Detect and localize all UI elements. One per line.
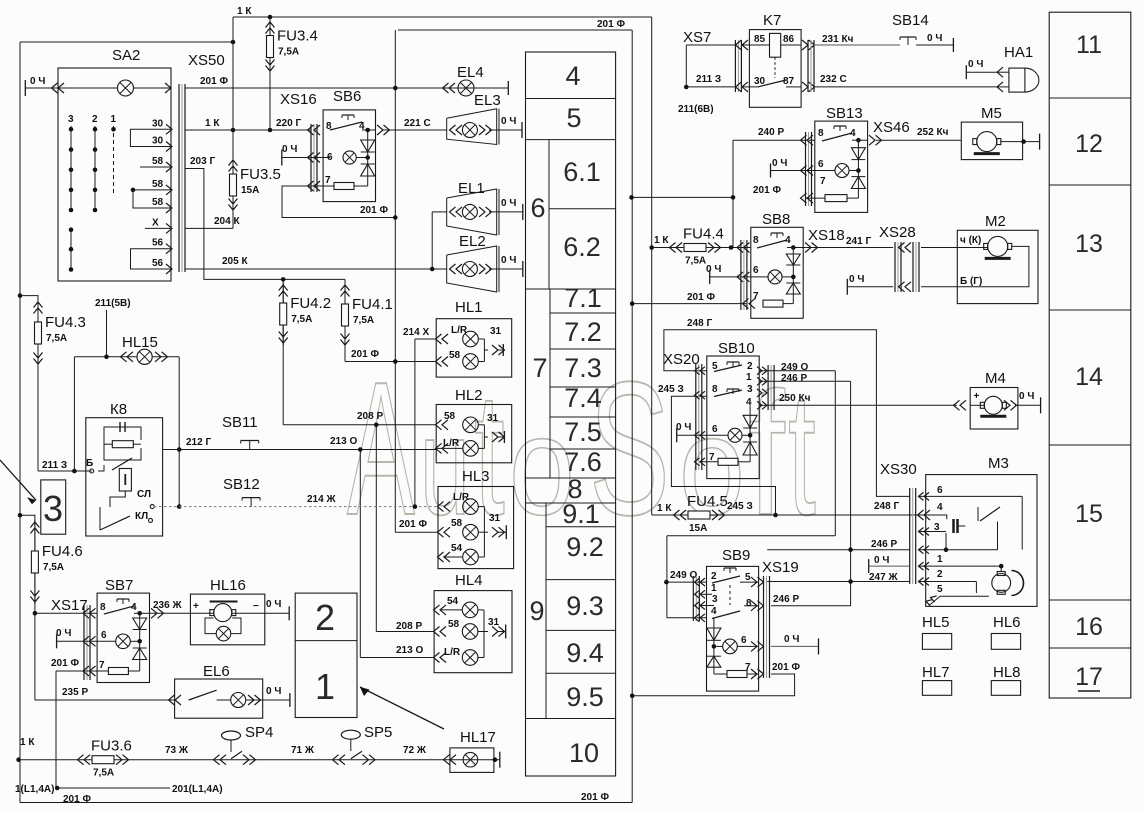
svg-text:HL6: HL6 xyxy=(993,614,1021,631)
svg-text:HL5: HL5 xyxy=(922,614,950,631)
svg-text:FU3.5: FU3.5 xyxy=(240,166,281,183)
svg-text:1(L1,4А): 1(L1,4А) xyxy=(15,784,54,795)
svg-text:0 Ч: 0 Ч xyxy=(501,116,516,127)
svg-text:2: 2 xyxy=(92,114,98,125)
svg-text:0 Ч: 0 Ч xyxy=(927,33,942,44)
svg-text:НА1: НА1 xyxy=(1004,44,1033,61)
svg-text:L/R: L/R xyxy=(453,492,470,503)
svg-text:XS50: XS50 xyxy=(188,52,225,69)
svg-text:5: 5 xyxy=(566,103,581,133)
svg-text:0 Ч: 0 Ч xyxy=(849,274,864,285)
svg-text:HL2: HL2 xyxy=(455,387,483,404)
svg-text:XS46: XS46 xyxy=(873,119,910,136)
svg-text:2: 2 xyxy=(711,571,717,582)
svg-text:SA2: SA2 xyxy=(112,47,140,64)
svg-text:6: 6 xyxy=(327,152,333,163)
svg-text:+: + xyxy=(193,601,199,612)
svg-text:31: 31 xyxy=(490,326,502,337)
svg-text:8: 8 xyxy=(326,121,332,132)
svg-text:M3: M3 xyxy=(988,455,1009,472)
svg-text:246 Р: 246 Р xyxy=(773,594,799,605)
svg-text:XS16: XS16 xyxy=(280,91,317,108)
svg-text:М2: М2 xyxy=(985,213,1006,230)
svg-text:0 Ч: 0 Ч xyxy=(772,158,787,169)
svg-text:87: 87 xyxy=(783,76,795,87)
svg-text:71 Ж: 71 Ж xyxy=(291,745,315,756)
svg-text:248 Г: 248 Г xyxy=(874,501,899,512)
svg-text:HL7: HL7 xyxy=(922,664,950,681)
svg-text:SB11: SB11 xyxy=(222,414,258,431)
svg-text:8: 8 xyxy=(100,602,106,613)
svg-text:7: 7 xyxy=(325,175,331,186)
svg-text:FU4.2: FU4.2 xyxy=(290,295,331,312)
svg-text:201 Ф: 201 Ф xyxy=(687,292,715,303)
svg-text:8: 8 xyxy=(753,235,759,246)
svg-text:7,5А: 7,5А xyxy=(43,562,64,573)
svg-text:6: 6 xyxy=(712,424,718,435)
svg-text:9.1: 9.1 xyxy=(562,499,600,529)
svg-text:15А: 15А xyxy=(241,185,259,196)
svg-text:HL8: HL8 xyxy=(993,664,1021,681)
svg-text:1 К: 1 К xyxy=(237,6,252,17)
svg-text:85: 85 xyxy=(754,34,766,45)
svg-text:Х: Х xyxy=(152,217,159,228)
svg-text:0 Ч: 0 Ч xyxy=(501,255,516,266)
svg-text:7,5А: 7,5А xyxy=(353,315,374,326)
svg-text:FU4.4: FU4.4 xyxy=(683,226,724,243)
svg-text:0 Ч: 0 Ч xyxy=(706,264,721,275)
svg-text:213 О: 213 О xyxy=(396,645,423,656)
svg-text:7: 7 xyxy=(532,353,547,383)
svg-text:L/R: L/R xyxy=(444,647,461,658)
svg-text:SB14: SB14 xyxy=(892,12,929,29)
svg-text:12: 12 xyxy=(1075,130,1103,158)
svg-text:Б (Г): Б (Г) xyxy=(960,276,982,287)
svg-text:7.3: 7.3 xyxy=(564,353,602,383)
svg-text:7.1: 7.1 xyxy=(564,283,602,313)
svg-text:HL16: HL16 xyxy=(210,577,246,594)
svg-text:XS20: XS20 xyxy=(663,351,700,368)
svg-text:201 Ф: 201 Ф xyxy=(351,349,379,360)
svg-text:246 Р: 246 Р xyxy=(871,539,897,550)
svg-text:4: 4 xyxy=(746,397,752,408)
svg-text:0 Ч: 0 Ч xyxy=(1019,391,1034,402)
svg-text:214 Х: 214 Х xyxy=(403,327,429,338)
svg-text:240 Р: 240 Р xyxy=(758,127,784,138)
svg-text:HL15: HL15 xyxy=(122,334,158,351)
svg-text:58: 58 xyxy=(152,179,164,190)
svg-text:7,5А: 7,5А xyxy=(93,768,114,779)
svg-text:7: 7 xyxy=(753,291,759,302)
svg-text:15А: 15А xyxy=(689,523,707,534)
svg-text:1: 1 xyxy=(315,666,335,707)
svg-text:6: 6 xyxy=(101,630,107,641)
svg-text:221 С: 221 С xyxy=(404,118,431,129)
svg-text:0 Ч: 0 Ч xyxy=(784,634,799,645)
svg-text:t: t xyxy=(788,357,816,552)
svg-text:FU4.6: FU4.6 xyxy=(42,543,83,560)
svg-text:XS19: XS19 xyxy=(762,559,799,576)
svg-text:1: 1 xyxy=(711,583,717,594)
svg-text:14: 14 xyxy=(1075,363,1103,391)
svg-text:1: 1 xyxy=(111,114,117,125)
svg-text:HL3: HL3 xyxy=(462,468,490,485)
svg-text:SB8: SB8 xyxy=(762,211,790,228)
svg-text:SB13: SB13 xyxy=(826,105,863,122)
svg-text:54: 54 xyxy=(447,596,459,607)
svg-text:6: 6 xyxy=(741,635,747,646)
svg-text:0 Ч: 0 Ч xyxy=(282,144,297,155)
svg-text:6: 6 xyxy=(818,159,824,170)
svg-text:7,5А: 7,5А xyxy=(685,256,706,267)
svg-text:205 К: 205 К xyxy=(222,256,248,267)
svg-text:4: 4 xyxy=(937,502,943,513)
svg-text:SB12: SB12 xyxy=(223,476,260,493)
svg-text:249 О: 249 О xyxy=(781,362,808,373)
svg-text:252 Кч: 252 Кч xyxy=(917,127,949,138)
svg-text:HL1: HL1 xyxy=(455,299,483,316)
svg-text:EL6: EL6 xyxy=(203,663,230,680)
svg-text:5: 5 xyxy=(937,584,943,595)
svg-text:0 Ч: 0 Ч xyxy=(874,555,889,566)
svg-text:56: 56 xyxy=(152,238,164,249)
svg-text:FU4.5: FU4.5 xyxy=(687,493,728,510)
svg-text:FU3.6: FU3.6 xyxy=(91,738,132,755)
svg-text:HL4: HL4 xyxy=(455,572,483,589)
svg-text:13: 13 xyxy=(1075,230,1103,258)
svg-text:HL17: HL17 xyxy=(460,729,496,746)
svg-text:XS30: XS30 xyxy=(880,461,917,478)
svg-text:58: 58 xyxy=(449,350,461,361)
svg-text:7: 7 xyxy=(99,660,105,671)
svg-text:31: 31 xyxy=(489,513,501,524)
svg-text:211 З: 211 З xyxy=(696,74,721,85)
svg-text:31: 31 xyxy=(487,413,499,424)
svg-text:250 Кч: 250 Кч xyxy=(779,393,811,404)
svg-text:6.2: 6.2 xyxy=(563,232,601,262)
svg-text:−: − xyxy=(253,601,259,612)
svg-text:3: 3 xyxy=(747,384,753,395)
svg-text:9.4: 9.4 xyxy=(566,638,604,668)
svg-text:К8: К8 xyxy=(110,401,127,418)
svg-text:7,5А: 7,5А xyxy=(46,333,67,344)
svg-text:7: 7 xyxy=(745,662,751,673)
svg-text:SB9: SB9 xyxy=(722,547,750,564)
svg-text:201 Ф: 201 Ф xyxy=(63,794,91,805)
svg-text:2: 2 xyxy=(315,597,335,638)
svg-text:1: 1 xyxy=(746,372,752,383)
svg-text:9.3: 9.3 xyxy=(566,591,604,621)
svg-text:K7: K7 xyxy=(763,12,781,29)
svg-text:9.5: 9.5 xyxy=(566,682,604,712)
svg-text:201 Ф: 201 Ф xyxy=(772,662,800,673)
svg-text:1 К: 1 К xyxy=(657,503,672,514)
svg-text:6: 6 xyxy=(753,265,759,276)
svg-text:SP5: SP5 xyxy=(364,724,392,741)
svg-text:0 Ч: 0 Ч xyxy=(56,628,71,639)
svg-text:7.6: 7.6 xyxy=(564,447,602,477)
svg-text:31: 31 xyxy=(488,617,500,628)
svg-text:2: 2 xyxy=(747,361,753,372)
svg-text:3: 3 xyxy=(68,114,74,125)
svg-text:SB10: SB10 xyxy=(718,340,755,357)
svg-text:11: 11 xyxy=(1076,31,1102,59)
svg-text:220 Г: 220 Г xyxy=(276,118,301,129)
svg-text:L/R: L/R xyxy=(443,438,460,449)
svg-text:201(L1,4А): 201(L1,4А) xyxy=(172,784,223,795)
svg-text:M4: M4 xyxy=(985,370,1006,387)
svg-text:o: o xyxy=(679,389,745,544)
svg-text:16: 16 xyxy=(1075,613,1103,641)
svg-text:73 Ж: 73 Ж xyxy=(165,745,189,756)
svg-text:M5: M5 xyxy=(981,105,1002,122)
svg-text:EL4: EL4 xyxy=(457,64,484,81)
svg-text:58: 58 xyxy=(451,518,463,529)
svg-text:7: 7 xyxy=(820,176,826,187)
svg-text:СЛ: СЛ xyxy=(137,489,151,500)
svg-text:208 Р: 208 Р xyxy=(396,621,422,632)
svg-text:4: 4 xyxy=(131,602,137,613)
svg-text:201 Ф: 201 Ф xyxy=(753,185,781,196)
svg-text:6: 6 xyxy=(937,485,943,496)
svg-text:4: 4 xyxy=(711,606,717,617)
svg-text:203 Г: 203 Г xyxy=(190,156,215,167)
svg-text:241 Г: 241 Г xyxy=(846,236,871,247)
svg-text:7,5А: 7,5А xyxy=(278,47,299,58)
svg-text:10: 10 xyxy=(569,738,599,768)
svg-text:0 Ч: 0 Ч xyxy=(30,76,45,87)
svg-text:201 Ф: 201 Ф xyxy=(51,658,79,669)
svg-text:7.2: 7.2 xyxy=(564,317,602,347)
svg-text:6: 6 xyxy=(530,193,545,223)
svg-text:f: f xyxy=(748,356,785,551)
svg-text:246 Р: 246 Р xyxy=(781,373,807,384)
svg-text:ч (К): ч (К) xyxy=(960,235,981,246)
svg-text:201 Ф: 201 Ф xyxy=(597,19,625,30)
svg-text:1 К: 1 К xyxy=(205,118,220,129)
svg-text:0 Ч: 0 Ч xyxy=(501,198,516,209)
svg-text:204 К: 204 К xyxy=(214,216,240,227)
svg-text:XS17: XS17 xyxy=(51,597,88,614)
svg-text:7.4: 7.4 xyxy=(564,383,602,413)
svg-text:201 Ф: 201 Ф xyxy=(581,792,609,803)
svg-text:0 Ч: 0 Ч xyxy=(968,59,983,70)
svg-text:208 Р: 208 Р xyxy=(357,411,383,422)
svg-text:FU3.4: FU3.4 xyxy=(277,28,318,45)
svg-text:231 Кч: 231 Кч xyxy=(822,34,854,45)
svg-text:248 Г: 248 Г xyxy=(687,318,712,329)
svg-text:8: 8 xyxy=(746,598,752,609)
svg-text:6.1: 6.1 xyxy=(563,157,601,187)
svg-text:1: 1 xyxy=(937,554,943,565)
svg-text:+: + xyxy=(974,391,980,402)
svg-text:232 С: 232 С xyxy=(820,74,847,85)
svg-text:214 Ж: 214 Ж xyxy=(307,494,336,505)
svg-text:8: 8 xyxy=(818,128,824,139)
svg-text:30: 30 xyxy=(152,136,164,147)
svg-text:201 Ф: 201 Ф xyxy=(399,519,427,530)
svg-text:9: 9 xyxy=(529,596,544,626)
svg-text:30: 30 xyxy=(152,118,164,129)
svg-text:EL1: EL1 xyxy=(458,180,485,197)
svg-text:8: 8 xyxy=(712,384,718,395)
svg-text:211(6В): 211(6В) xyxy=(678,104,714,115)
svg-text:58: 58 xyxy=(444,411,456,422)
svg-text:EL3: EL3 xyxy=(474,92,501,109)
svg-text:SB6: SB6 xyxy=(333,88,361,105)
svg-text:7,5А: 7,5А xyxy=(291,314,312,325)
svg-text:3: 3 xyxy=(712,594,718,605)
svg-text:58: 58 xyxy=(152,156,164,167)
svg-text:211(5В): 211(5В) xyxy=(95,298,131,309)
svg-text:86: 86 xyxy=(783,34,795,45)
svg-text:1 К: 1 К xyxy=(654,235,669,246)
svg-text:213 О: 213 О xyxy=(330,436,357,447)
svg-text:72 Ж: 72 Ж xyxy=(403,745,427,756)
svg-text:XS18: XS18 xyxy=(808,227,845,244)
svg-text:XS7: XS7 xyxy=(683,29,711,46)
svg-text:SP4: SP4 xyxy=(245,724,273,741)
svg-text:235 Р: 235 Р xyxy=(62,687,88,698)
svg-text:0 Ч: 0 Ч xyxy=(266,599,281,610)
svg-text:Б: Б xyxy=(86,458,93,469)
svg-text:КЛ: КЛ xyxy=(135,511,148,522)
svg-text:58: 58 xyxy=(152,197,164,208)
svg-text:245 З: 245 З xyxy=(658,384,684,395)
svg-text:211 З: 211 З xyxy=(42,460,67,471)
svg-text:212 Г: 212 Г xyxy=(186,437,211,448)
svg-text:54: 54 xyxy=(451,543,463,554)
svg-text:7.5: 7.5 xyxy=(564,417,602,447)
svg-text:58: 58 xyxy=(448,619,460,630)
svg-text:9.2: 9.2 xyxy=(566,532,604,562)
svg-text:3: 3 xyxy=(43,488,63,529)
svg-text:17: 17 xyxy=(1075,663,1103,691)
svg-text:245 З: 245 З xyxy=(727,501,753,512)
svg-text:FU4.1: FU4.1 xyxy=(352,296,393,313)
svg-text:201 Ф: 201 Ф xyxy=(200,76,228,87)
svg-text:4: 4 xyxy=(565,61,580,91)
svg-text:SB7: SB7 xyxy=(105,577,133,594)
svg-text:EL2: EL2 xyxy=(459,233,486,250)
svg-text:2: 2 xyxy=(937,569,943,580)
svg-text:56: 56 xyxy=(152,258,164,269)
svg-text:5: 5 xyxy=(745,572,751,583)
svg-text:XS28: XS28 xyxy=(879,224,916,241)
svg-text:FU4.3: FU4.3 xyxy=(45,314,86,331)
svg-text:201 Ф: 201 Ф xyxy=(360,205,388,216)
svg-text:1 К: 1 К xyxy=(20,737,35,748)
svg-text:15: 15 xyxy=(1075,500,1103,528)
svg-text:0 Ч: 0 Ч xyxy=(266,686,281,697)
svg-text:0 Ч: 0 Ч xyxy=(676,422,691,433)
svg-text:236 Ж: 236 Ж xyxy=(153,600,182,611)
